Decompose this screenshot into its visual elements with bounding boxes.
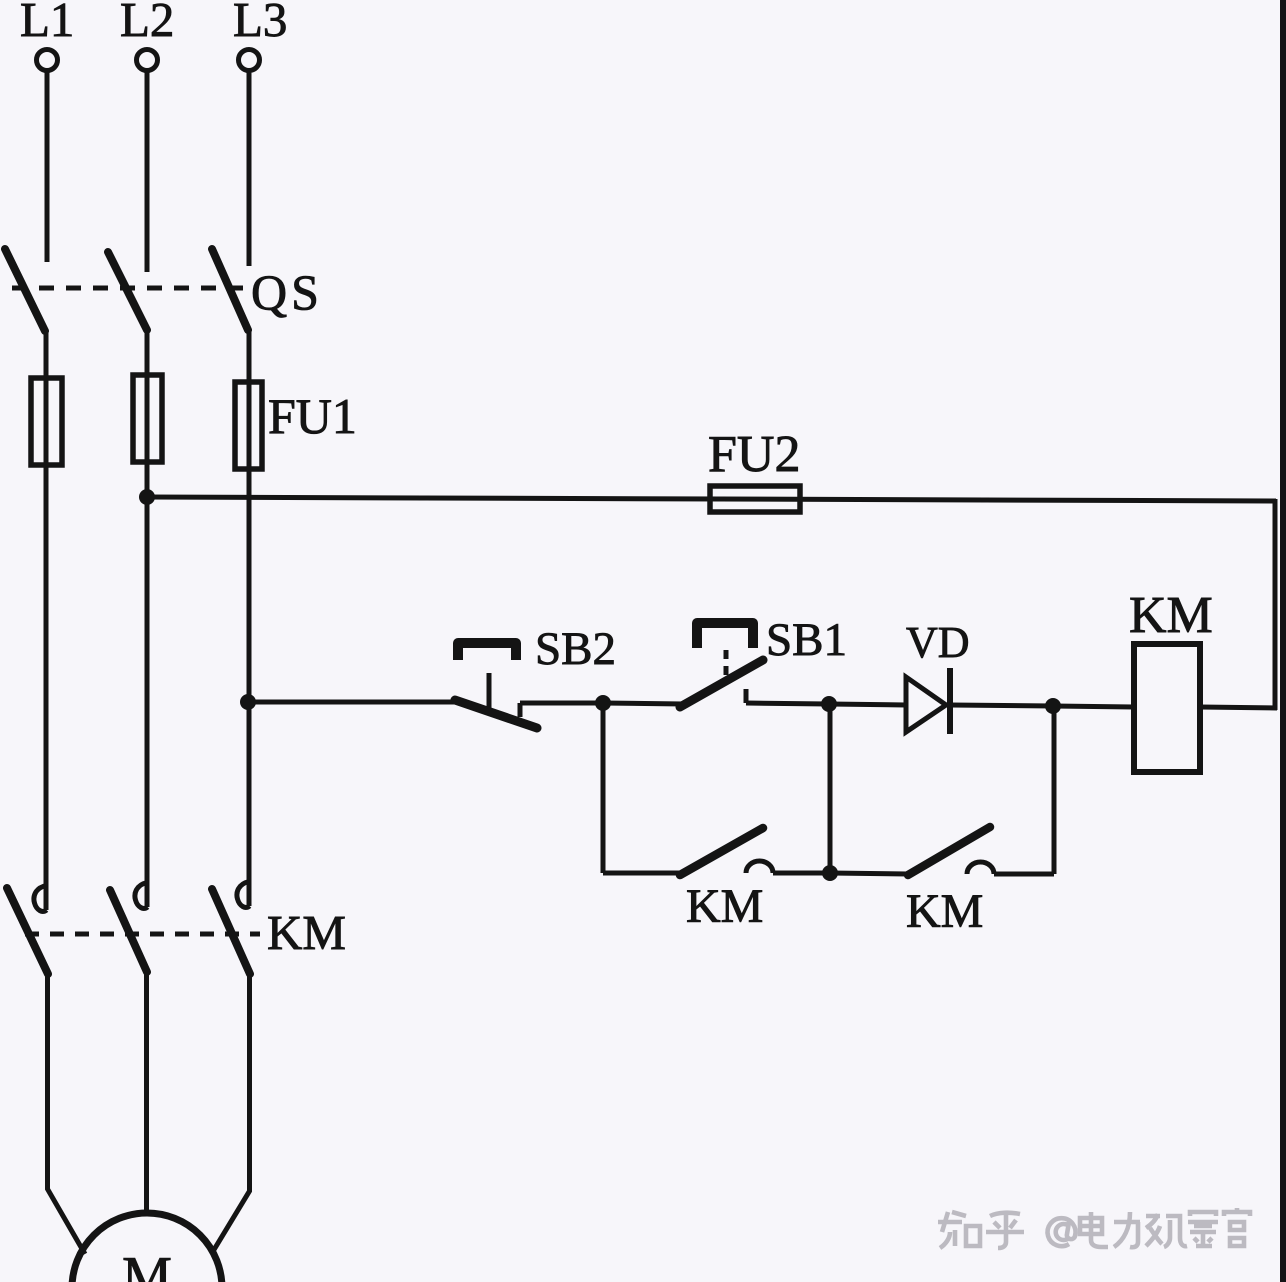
- terminal L1: [37, 50, 58, 71]
- fuse FU1 pole 2: [133, 375, 162, 462]
- contact KM main pole3 hook: [237, 882, 250, 908]
- wire SB2 to node: [520, 701, 604, 706]
- wire aux2 left: [830, 873, 908, 874]
- wire aux1 to middle: [773, 871, 830, 876]
- contact KM main pole1 hook: [34, 886, 47, 912]
- junction dot after SB2: [595, 695, 611, 711]
- wire branch right up: [1052, 706, 1057, 874]
- wire L1 column: [44, 330, 49, 910]
- wire control feed top: [147, 497, 1276, 501]
- svg-text:M: M: [122, 1246, 172, 1282]
- svg-text:KM: KM: [906, 885, 983, 938]
- glyph 知: [938, 1212, 980, 1248]
- SB1 operator stem dashed: [724, 650, 729, 680]
- SB2 operator stem: [487, 673, 492, 712]
- wire right drop: [1273, 499, 1278, 710]
- wire SB1 to node: [746, 703, 829, 704]
- glyph 电: [1080, 1212, 1108, 1247]
- svg-text:L2: L2: [120, 0, 174, 47]
- wire coil to right drop: [1200, 707, 1277, 708]
- wire L2 column: [145, 329, 150, 907]
- switch QS pole 3 blade: [212, 249, 248, 330]
- wire VD to node: [950, 705, 1054, 706]
- SB2 contact tick: [518, 703, 523, 717]
- fuse FU2: [710, 486, 800, 512]
- watermark 知乎 @电力观察官: [938, 1208, 1250, 1248]
- svg-text:KM: KM: [686, 880, 763, 933]
- glyph @: [1048, 1218, 1076, 1246]
- wire L3 top: [247, 71, 252, 266]
- wire L2 top: [145, 71, 150, 272]
- right black border strip: [1280, 0, 1286, 1282]
- svg-text:L1: L1: [20, 0, 74, 47]
- wire aux2 to right: [994, 872, 1054, 877]
- contact KM aux 1 bump: [746, 861, 773, 873]
- glyph 察: [1188, 1212, 1218, 1246]
- contact KM main pole3 blade: [212, 889, 250, 974]
- diode VD cathode bar: [947, 668, 953, 734]
- wire L1 top: [45, 71, 50, 262]
- junction dot L2 feed: [139, 489, 155, 505]
- switch QS pole 2 blade: [108, 252, 147, 330]
- SB1 contact tick: [744, 689, 749, 703]
- SB2 operator cap: [458, 643, 516, 660]
- wire motor lead 3: [212, 973, 250, 1253]
- contactor coil KM: [1134, 644, 1200, 772]
- svg-text:KM: KM: [1129, 587, 1213, 644]
- junction dot before coil: [1045, 698, 1061, 714]
- terminal L3: [239, 50, 260, 71]
- pushbutton SB2 blade: [455, 700, 537, 728]
- fuse FU1 pole 3: [235, 382, 262, 469]
- glyph 乎: [986, 1213, 1024, 1248]
- motor M circle: [72, 1213, 222, 1282]
- wire node to coil: [1053, 706, 1134, 707]
- wire branch middle down: [828, 704, 833, 873]
- svg-text:FU1: FU1: [268, 388, 357, 444]
- QS linkage dashed: [12, 286, 252, 291]
- contact KM aux 2 blade: [908, 827, 990, 875]
- glyph 力: [1114, 1212, 1140, 1247]
- KM main linkage dashed: [25, 932, 260, 937]
- junction dot middle bottom: [822, 865, 838, 881]
- switch QS pole 1 blade: [5, 249, 45, 331]
- svg-text:SB2: SB2: [535, 623, 616, 675]
- contact KM main pole2 blade: [110, 890, 147, 972]
- wire L3 column: [247, 330, 252, 906]
- glyph 观: [1146, 1214, 1187, 1247]
- svg-text:SB1: SB1: [766, 614, 847, 666]
- wire branch left bottom: [603, 871, 680, 876]
- junction dot after SB1: [821, 696, 837, 712]
- contact KM main pole1 blade: [7, 888, 48, 974]
- svg-text:L3: L3: [233, 0, 287, 47]
- contact KM aux 1 blade: [680, 828, 763, 875]
- wire control row to SB2: [248, 700, 456, 705]
- junction dot L3 control tap: [240, 694, 256, 710]
- svg-text:VD: VD: [906, 618, 970, 667]
- wire node to SB1: [603, 703, 684, 704]
- svg-text:QS: QS: [251, 264, 323, 320]
- svg-text:KM: KM: [267, 905, 346, 960]
- SB1 operator cap: [697, 623, 753, 648]
- terminal L2: [137, 50, 158, 71]
- contact KM main pole2 hook: [135, 883, 148, 909]
- glyph 官: [1224, 1208, 1250, 1246]
- wire motor lead 2: [144, 971, 149, 1214]
- wire motor lead 1: [48, 972, 86, 1254]
- svg-text:FU2: FU2: [708, 426, 800, 483]
- wire branch left down: [601, 703, 606, 873]
- diode VD triangle: [906, 677, 946, 732]
- pushbutton SB1 blade: [680, 660, 763, 707]
- wire node to VD: [829, 704, 906, 705]
- contact KM aux 2 bump: [967, 862, 994, 874]
- fuse FU1 pole 1: [31, 378, 62, 465]
